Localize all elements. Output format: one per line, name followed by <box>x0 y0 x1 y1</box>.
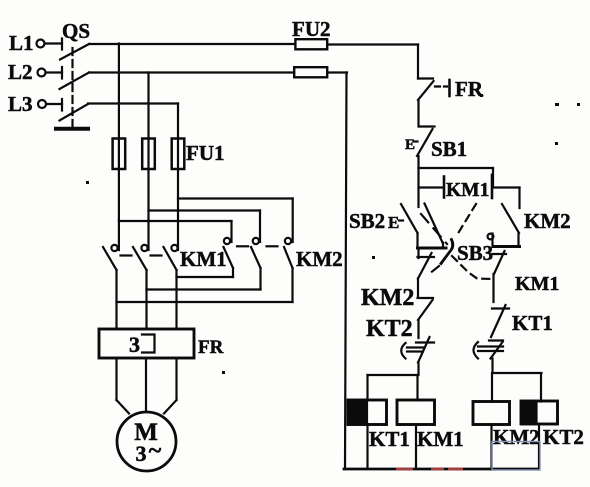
svg-text:KM2: KM2 <box>493 425 540 449</box>
svg-text:~: ~ <box>149 438 162 464</box>
svg-text:KT2: KT2 <box>366 316 413 342</box>
svg-text:KT1: KT1 <box>512 311 553 335</box>
svg-text:KM1: KM1 <box>446 180 489 201</box>
svg-text:FU2: FU2 <box>292 17 331 41</box>
svg-text:L3: L3 <box>8 92 33 116</box>
svg-text:E: E <box>388 213 399 232</box>
svg-text:KT1: KT1 <box>369 427 410 451</box>
svg-text:FR: FR <box>455 77 484 101</box>
svg-text:QS: QS <box>62 19 90 43</box>
svg-text:KM1: KM1 <box>180 247 227 271</box>
svg-text:3: 3 <box>129 332 140 357</box>
svg-text:E: E <box>405 137 415 153</box>
svg-text:KM2: KM2 <box>296 247 343 271</box>
svg-text:KM1: KM1 <box>417 427 464 451</box>
svg-text:FR: FR <box>198 337 224 358</box>
svg-text:L2: L2 <box>8 60 33 84</box>
svg-text:KM2: KM2 <box>361 285 414 311</box>
svg-text:3: 3 <box>136 441 147 466</box>
svg-text:FU1: FU1 <box>186 141 225 165</box>
svg-text:KM2: KM2 <box>524 209 571 233</box>
svg-text:L1: L1 <box>9 31 34 55</box>
svg-text:SB2: SB2 <box>349 209 385 233</box>
svg-text:KT2: KT2 <box>543 425 584 449</box>
svg-text:KM1: KM1 <box>515 273 559 295</box>
svg-text:SB1: SB1 <box>431 137 467 161</box>
svg-text:SB3: SB3 <box>457 241 493 265</box>
